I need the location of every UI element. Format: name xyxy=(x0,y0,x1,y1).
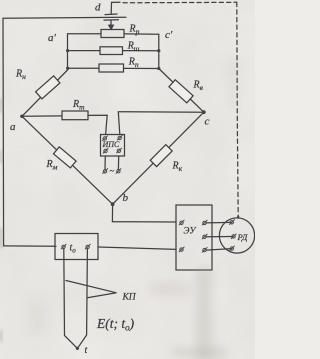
wire EU to RD bottom xyxy=(206,249,232,251)
svg-text:~: ~ xyxy=(110,166,115,176)
wire row1 right xyxy=(124,33,159,36)
instrument boundary dashed top xyxy=(123,1,237,4)
thermocouple leg right xyxy=(78,249,88,349)
IPS AC stub right xyxy=(117,156,119,169)
svg-text:КП: КП xyxy=(122,293,137,303)
node d wiper symbol xyxy=(104,2,120,29)
wire: left border vertical xyxy=(2,18,5,246)
junction dashed-to-RD xyxy=(237,216,239,218)
terminal EU right-top xyxy=(202,220,208,225)
wire diagonal c' to c xyxy=(159,69,204,113)
wire t0 to EU xyxy=(98,247,176,249)
svg-text:d: d xyxy=(95,2,101,14)
wire diagonal a to a' xyxy=(22,70,68,116)
terminal IPS top-left xyxy=(102,136,108,141)
wire diagonal b to c xyxy=(113,112,204,204)
wire EU to RD top xyxy=(206,221,232,224)
terminal IPS bottom-right xyxy=(116,148,122,153)
wire row2 right xyxy=(123,50,159,52)
terminal t0 right xyxy=(85,244,91,249)
motor RD circle xyxy=(219,218,254,253)
thermocouple leg left xyxy=(64,249,78,349)
resistor Rm box xyxy=(53,147,76,168)
wire EU to RD middle xyxy=(206,236,233,238)
svg-text:c′: c′ xyxy=(165,29,173,41)
junction left bus row3 xyxy=(66,67,69,70)
svg-text:t: t xyxy=(85,345,88,356)
resistor Rv box xyxy=(169,80,193,103)
junction right bus row2 xyxy=(157,49,160,52)
svg-text:c: c xyxy=(205,116,210,128)
right bus c' xyxy=(158,34,160,68)
wire b stub down xyxy=(112,204,176,222)
resistor Rt box xyxy=(62,111,88,120)
wire Rt to IPS corner xyxy=(88,115,107,134)
svg-text:a: a xyxy=(10,121,16,133)
wire IPS to c xyxy=(118,112,204,135)
wire row1 left xyxy=(68,33,102,35)
node a junction dot xyxy=(20,115,24,119)
terminal IPS ac-left xyxy=(102,168,108,173)
callout KP lines xyxy=(66,281,117,298)
amplifier EU box xyxy=(176,205,212,270)
terminal EU left-bottom xyxy=(179,247,185,252)
thermocouple cold-junction t0 box xyxy=(55,234,98,260)
terminal EU right-middle xyxy=(202,234,208,239)
terminal IPS ac-right xyxy=(116,168,122,173)
terminal RD top xyxy=(229,219,235,224)
left bus a' xyxy=(67,34,69,70)
terminal EU left-top xyxy=(179,220,185,225)
terminal IPS bottom-left xyxy=(103,148,109,153)
terminal RD bottom xyxy=(229,246,235,251)
resistor Rsh box xyxy=(100,47,123,55)
wire diagonal a to b xyxy=(22,116,113,204)
terminal t0 left xyxy=(61,244,67,249)
junction right bus row3 xyxy=(157,67,160,70)
resistor Rk box xyxy=(150,145,172,167)
svg-text:E(t; to): E(t; to) xyxy=(96,316,135,333)
instrument boundary dashed right xyxy=(237,2,238,216)
wire: bottom to t0 box xyxy=(4,245,56,247)
svg-text:ИПС: ИПС xyxy=(102,140,121,149)
terminal EU right-bottom xyxy=(202,247,208,252)
svg-text:ЭУ: ЭУ xyxy=(184,226,197,236)
IPS AC stub left xyxy=(104,156,106,169)
svg-text:РД: РД xyxy=(237,232,248,242)
terminal IPS top-right xyxy=(117,135,123,140)
terminal RD middle xyxy=(231,234,237,239)
thermocouple hot junction t dot xyxy=(76,347,79,350)
paper background xyxy=(0,0,255,359)
wire: wiper d to left border xyxy=(3,17,126,18)
wire a to Rt xyxy=(22,115,62,117)
svg-text:b: b xyxy=(123,192,129,204)
svg-text:a′: a′ xyxy=(48,32,57,44)
resistor Rp box xyxy=(101,30,124,38)
wire row3 right xyxy=(124,67,159,69)
junction left bus row2 xyxy=(66,49,69,52)
node b junction dot xyxy=(111,202,115,206)
resistor Rp2 box xyxy=(99,64,124,72)
power supply IPS box xyxy=(101,135,125,157)
wire row2 left xyxy=(68,50,101,52)
wire row3 left xyxy=(68,67,100,69)
resistor Rn box xyxy=(36,76,60,99)
node c junction dot xyxy=(202,110,206,114)
